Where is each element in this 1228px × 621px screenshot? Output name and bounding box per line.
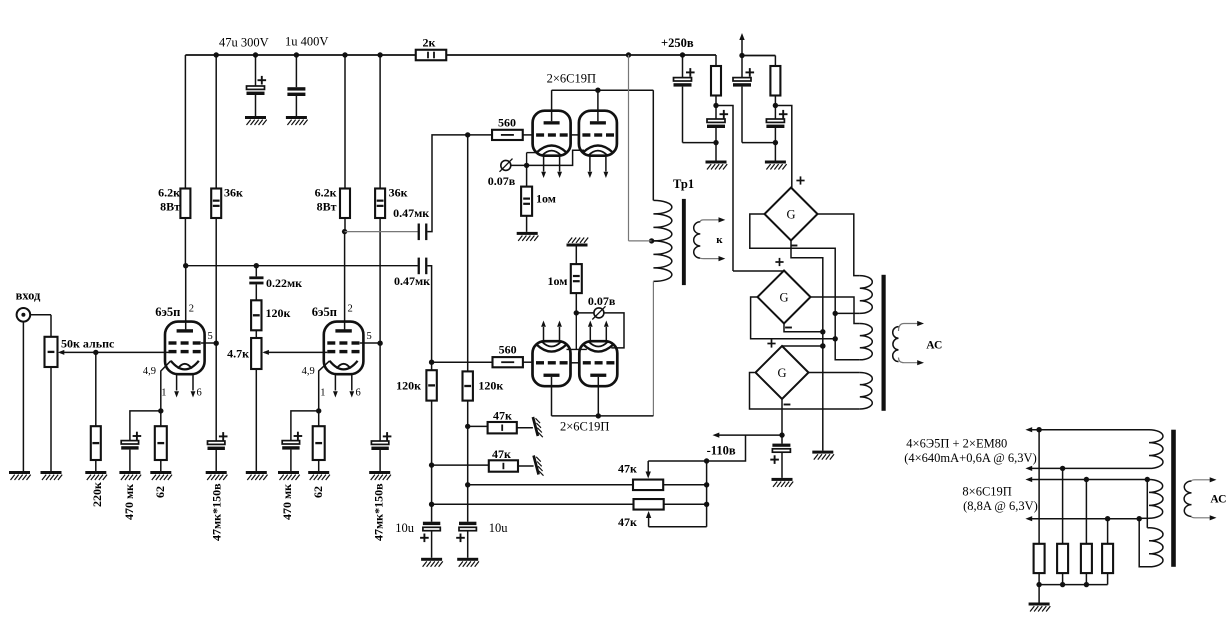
svg-text:4,9: 4,9 [143,366,156,377]
svg-text:4.7к: 4.7к [227,347,249,361]
svg-text:6: 6 [356,388,361,399]
svg-text:47к: 47к [618,515,637,529]
svg-text:АС: АС [926,340,942,352]
svg-text:0.47мк: 0.47мк [393,206,429,220]
svg-text:8Вт: 8Вт [160,200,180,214]
svg-text:120к: 120к [478,379,503,393]
svg-text:6э5п: 6э5п [312,305,337,319]
svg-text:470 мк: 470 мк [122,484,136,520]
svg-text:(4×640mA+0,6A @ 6,3V): (4×640mA+0,6A @ 6,3V) [904,451,1037,465]
svg-text:8×6С19П: 8×6С19П [962,485,1011,499]
svg-text:6: 6 [197,388,202,399]
svg-text:220к: 220к [90,482,104,507]
svg-text:560: 560 [499,343,517,357]
svg-text:G: G [777,366,786,380]
svg-text:2: 2 [348,304,353,315]
svg-text:вход: вход [16,289,41,303]
svg-text:6.2к: 6.2к [315,186,337,200]
svg-text:2×6С19П: 2×6С19П [560,420,609,434]
svg-text:0.22мк: 0.22мк [266,276,302,290]
svg-text:47мк*150в: 47мк*150в [210,483,224,541]
svg-text:-110в: -110в [707,444,736,458]
svg-text:50к альпс: 50к альпс [61,337,115,351]
svg-text:0.47мк: 0.47мк [394,274,430,288]
svg-text:36к: 36к [224,186,243,200]
svg-text:к: к [716,234,723,246]
svg-text:1: 1 [161,388,166,399]
svg-text:0.07в: 0.07в [588,294,616,308]
svg-text:5: 5 [367,331,372,342]
svg-text:36к: 36к [389,186,408,200]
svg-text:6.2к: 6.2к [158,186,180,200]
svg-text:47мк*150в: 47мк*150в [372,483,386,541]
svg-text:0.07в: 0.07в [488,174,516,188]
svg-text:1ом: 1ом [536,192,556,206]
svg-text:10u: 10u [395,521,415,535]
svg-text:1u 400V: 1u 400V [285,35,328,49]
svg-text:560: 560 [498,116,516,130]
svg-text:4,9: 4,9 [302,366,315,377]
svg-text:47u 300V: 47u 300V [219,36,269,50]
svg-text:G: G [779,291,788,305]
svg-text:120к: 120к [396,379,421,393]
svg-text:1: 1 [320,388,325,399]
svg-text:10u: 10u [489,521,509,535]
svg-text:120к: 120к [266,306,291,320]
svg-text:2к: 2к [423,36,436,50]
svg-text:5: 5 [208,331,213,342]
svg-text:470 мк: 470 мк [280,484,294,520]
svg-text:4×6Э5П + 2×ЕМ80: 4×6Э5П + 2×ЕМ80 [906,437,1007,451]
svg-text:(8,8A @ 6,3V): (8,8A @ 6,3V) [963,499,1038,513]
svg-text:47к: 47к [618,462,637,476]
svg-text:Тр1: Тр1 [673,177,694,191]
svg-text:62: 62 [311,486,325,498]
svg-text:2: 2 [189,304,194,315]
svg-text:+250в: +250в [661,36,694,50]
svg-text:1ом: 1ом [547,274,567,288]
svg-text:G: G [786,208,795,222]
svg-text:47к: 47к [492,447,511,461]
svg-text:6э5п: 6э5п [155,305,180,319]
svg-text:АС: АС [1210,494,1226,506]
svg-text:8Вт: 8Вт [317,200,337,214]
svg-text:47к: 47к [493,409,512,423]
svg-text:62: 62 [153,486,167,498]
svg-text:2×6С19П: 2×6С19П [547,72,596,86]
